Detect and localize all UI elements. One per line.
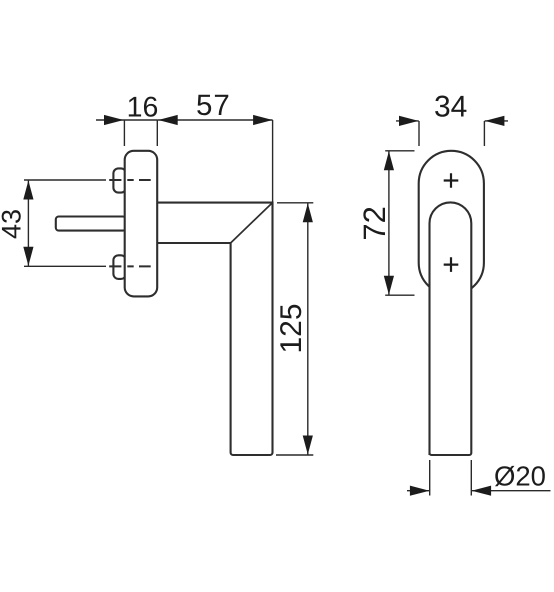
dimension 16: extension line right xyxy=(156,120,158,146)
corner extension line (57/125) xyxy=(272,120,274,203)
screw cross mark top xyxy=(444,173,459,188)
svg-text:16: 16 xyxy=(127,92,159,124)
dimension 72: extension line bottom xyxy=(385,294,414,296)
dimension 43: extension line top xyxy=(24,179,106,181)
dimension 57: dim line xyxy=(157,119,272,121)
dimension 125: extension line bottom xyxy=(276,454,313,456)
oval rosette (front view) xyxy=(419,151,484,295)
dimension 43: bottom arrow xyxy=(23,247,33,266)
dimension 16: left arrow xyxy=(104,115,124,125)
dimension 43: top arrow xyxy=(23,181,33,200)
dimension 57: left arrow xyxy=(158,115,178,125)
dimension 43: dim line xyxy=(27,180,29,266)
svg-text:Ø20: Ø20 xyxy=(494,461,546,492)
dimension diameter 20: extension line right xyxy=(470,460,472,496)
dimension 72: extension line top xyxy=(385,150,414,152)
dimension 125: dim line xyxy=(307,203,309,455)
screw cross mark bottom xyxy=(444,257,459,272)
svg-text:72: 72 xyxy=(357,206,392,240)
dimension 43: extension line bottom xyxy=(24,265,106,267)
dimension 34: left arrow xyxy=(399,116,419,126)
dimension 34: right tail xyxy=(485,120,508,122)
dimension 125: top arrow xyxy=(303,203,313,222)
dimension 125: extension line top xyxy=(277,202,313,204)
dimension diameter 20: right tail xyxy=(472,490,551,492)
dimension 125: bottom arrow xyxy=(303,436,313,455)
centerline top screw xyxy=(109,179,151,181)
dimension 72: dim line xyxy=(388,151,390,295)
dimension 34: extension line left xyxy=(418,121,420,146)
dimension 72: bottom arrow xyxy=(384,276,394,295)
centerline bottom screw xyxy=(109,265,151,267)
screw boss bottom (side view) xyxy=(113,255,126,279)
svg-text:43: 43 xyxy=(0,209,27,239)
dimension diameter 20: extension line left xyxy=(429,460,431,496)
rosette plate (side view) xyxy=(125,151,158,297)
dimension diameter 20: right arrow xyxy=(472,486,492,496)
handle lever arm (side view) xyxy=(158,203,273,455)
dimension 34: extension line right xyxy=(483,121,485,146)
svg-text:57: 57 xyxy=(196,89,231,122)
handle grip (front view) xyxy=(430,202,472,455)
svg-text:125: 125 xyxy=(275,303,308,353)
dimension 72: top arrow xyxy=(384,151,394,170)
dimension diameter 20: left tail xyxy=(407,490,430,492)
dimension 16: extension line left xyxy=(123,120,125,146)
miter bend line xyxy=(231,203,273,243)
screw boss top (side view) xyxy=(113,168,126,192)
spindle (square shaft, side view) xyxy=(56,217,126,231)
dimension 34: right arrow xyxy=(485,116,505,126)
dimension diameter 20: left arrow xyxy=(410,486,430,496)
svg-text:34: 34 xyxy=(434,91,467,124)
dimension 57: right arrow xyxy=(253,115,273,125)
dimension 34: left tail xyxy=(396,120,419,122)
dimension 16: dim line with outside tail xyxy=(96,119,157,121)
